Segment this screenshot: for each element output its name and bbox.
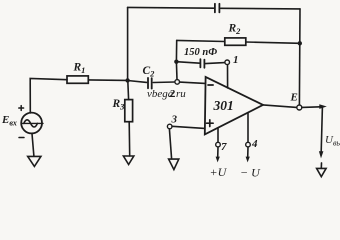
wire R2 to output vertical [246, 42, 300, 43]
svg-text:+U: +U [210, 165, 228, 179]
wire R3 to ground [128, 122, 131, 156]
ground (pin 3) [169, 159, 179, 170]
wire top rail left [128, 6, 214, 9]
svg-text:R2: R2 [228, 23, 242, 37]
capacitor 150pF [200, 59, 204, 68]
output node E terminal [297, 105, 302, 110]
resistor R2 [225, 38, 246, 45]
wire Uout vertical [321, 107, 322, 151]
minus polarity [19, 137, 24, 139]
wire top rail right [221, 7, 300, 10]
wire R2 branch left [177, 40, 225, 41]
svg-text:1: 1 [233, 54, 239, 66]
svg-text:7: 7 [221, 141, 227, 153]
capacitor C2 [148, 78, 152, 89]
wire R3 top lead [127, 81, 130, 100]
pin 7 terminal [216, 142, 221, 147]
svg-text:2: 2 [169, 88, 176, 100]
wire left vertical [127, 7, 129, 80]
wire right vertical [298, 9, 301, 105]
svg-text:R3: R3 [112, 98, 126, 112]
resistor R1 [67, 76, 88, 83]
node A junction [125, 78, 129, 82]
capacitor C1 (top feedback) [215, 4, 220, 13]
svg-text:R1: R1 [73, 62, 86, 76]
wire C2 to pin 2 [153, 81, 175, 84]
wire source to ground [32, 134, 34, 157]
svg-text:150 пФ: 150 пФ [184, 47, 217, 58]
svg-text:C2: C2 [143, 65, 156, 79]
ground (output) [317, 168, 327, 176]
pin 3 terminal [167, 124, 172, 129]
wire pin 3 to plus input [172, 126, 205, 128]
svg-text:vbega.ru: vbega.ru [147, 88, 186, 100]
plus sign non-inverting input [207, 120, 214, 127]
wire node A to C2 [128, 81, 147, 83]
ground (source) [28, 156, 41, 166]
wire feedback vertical [175, 40, 178, 79]
wire pin 3 to ground [169, 129, 171, 159]
junction dot R2-output [298, 41, 302, 45]
wire output arrow [302, 106, 321, 109]
wire pin 4 [247, 113, 249, 142]
ground stub (output) [320, 163, 322, 168]
pin 1 terminal [225, 60, 230, 65]
sine wave [22, 122, 43, 124]
svg-text:Uвых: Uвых [325, 134, 340, 148]
svg-text:Е: Е [290, 92, 298, 104]
wire pin 1 to op-amp top edge [227, 65, 229, 88]
wire cap to pin 1 [205, 63, 224, 64]
arrow -U [247, 147, 249, 158]
ground (R3) [123, 156, 133, 165]
wire pin 7 [217, 128, 219, 142]
arrowhead Uout [319, 151, 324, 158]
wire pin 2 to inverting input [180, 82, 206, 83]
svg-text:3: 3 [171, 114, 178, 126]
plus polarity [19, 106, 24, 111]
junction dot 150pF tap [174, 60, 178, 64]
svg-text:4: 4 [251, 138, 258, 150]
op-amp U1 (301) [205, 77, 263, 134]
pin 2 terminal [175, 80, 180, 85]
svg-text:− U: − U [240, 166, 261, 180]
AC source Evx [21, 113, 42, 134]
svg-text:Евх: Евх [1, 114, 17, 128]
wire 150pF branch [176, 62, 199, 64]
svg-text:301: 301 [213, 98, 234, 113]
arrow +U [217, 147, 219, 158]
minus sign inverting input [208, 84, 213, 86]
wire op-amp output [263, 105, 297, 108]
wire source to R1 [30, 78, 67, 113]
pin 4 terminal [246, 142, 251, 147]
resistor R3 [125, 100, 133, 122]
wire R1 to node A [88, 79, 127, 82]
